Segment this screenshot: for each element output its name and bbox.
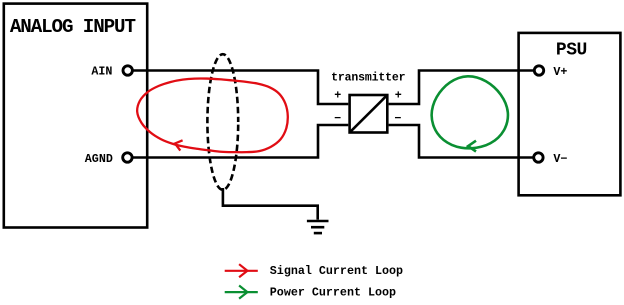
- svg-text:Power Current Loop: Power Current Loop: [270, 285, 396, 299]
- svg-text:+: +: [395, 88, 402, 102]
- svg-text:AIN: AIN: [91, 64, 112, 78]
- svg-text:−: −: [334, 112, 341, 126]
- svg-text:+: +: [334, 88, 341, 102]
- svg-text:−: −: [394, 112, 401, 126]
- svg-text:V+: V+: [553, 65, 567, 79]
- svg-text:AGND: AGND: [85, 152, 113, 166]
- svg-text:V−: V−: [553, 152, 567, 166]
- svg-text:ANALOG INPUT: ANALOG INPUT: [10, 16, 136, 38]
- svg-text:transmitter: transmitter: [331, 72, 406, 85]
- svg-text:PSU: PSU: [556, 40, 587, 60]
- svg-text:Signal Current Loop: Signal Current Loop: [270, 264, 403, 278]
